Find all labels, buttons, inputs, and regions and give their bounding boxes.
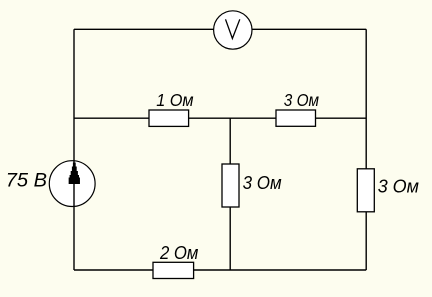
resistor R2 (3 Om top) <box>276 110 316 126</box>
svg-text:75 В: 75 В <box>6 170 47 192</box>
svg-text:3 Ом: 3 Ом <box>378 177 420 197</box>
svg-text:2 Ом: 2 Ом <box>159 243 199 263</box>
resistor R5 (2 Om bottom) <box>153 262 194 278</box>
wire right <box>365 29 367 270</box>
wire left <box>73 29 75 270</box>
svg-text:3 Ом: 3 Ом <box>243 173 283 193</box>
wire middle horizontal <box>74 117 366 119</box>
svg-text:1 Ом: 1 Ом <box>156 90 193 110</box>
voltmeter V1 circle <box>214 11 252 49</box>
wire top <box>74 28 366 30</box>
resistor R3 (3 Om middle vertical) <box>222 164 239 207</box>
voltage source circle (75 V) <box>49 161 95 207</box>
resistor R4 (3 Om right vertical) <box>357 169 374 212</box>
wire bottom <box>74 269 366 271</box>
source arrow <box>69 163 80 185</box>
wire middle vertical <box>229 118 231 270</box>
voltmeter letter V <box>226 19 240 38</box>
svg-text:3 Ом: 3 Ом <box>284 90 319 110</box>
resistor R1 (1 Om) <box>149 110 189 126</box>
